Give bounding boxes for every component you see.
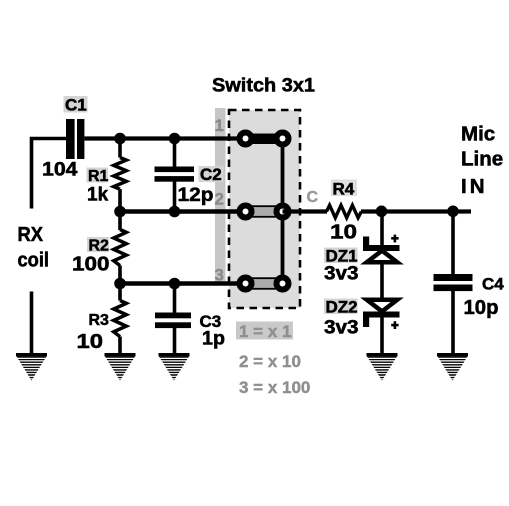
svg-text:3v3: 3v3 [324, 264, 359, 285]
svg-text:C4: C4 [482, 275, 504, 294]
switch S1 body (dashed box) [229, 110, 300, 308]
DZ2 value 3v3 [324, 318, 359, 339]
ground (C4) [437, 353, 469, 381]
DZ2 plus sign [391, 321, 398, 329]
junction dot output / C4 [447, 206, 459, 218]
svg-text:1p: 1p [202, 329, 225, 350]
wire capacitor column x=173.5 lower [173, 284, 177, 355]
switch contact 1 left [237, 130, 255, 148]
svg-text:R2: R2 [89, 238, 110, 255]
R4 value 10 [330, 222, 357, 244]
svg-text:Mic: Mic [461, 123, 495, 146]
R4 label [331, 180, 357, 199]
svg-text:Switch 3x1: Switch 3x1 [212, 75, 315, 97]
ground (zener) [366, 353, 398, 381]
DZ1 label [324, 247, 358, 266]
switch common vertical wire [281, 139, 285, 284]
R3 value 10 [77, 331, 104, 353]
svg-text:2: 2 [215, 190, 224, 209]
svg-text:100: 100 [72, 254, 110, 276]
junction dot row2 / C2 [169, 206, 181, 218]
svg-text:Line: Line [461, 148, 503, 171]
wire output net row2 to R4 [283, 209, 328, 213]
wire row2 net from R1/R2 junction to switch pin 2 [120, 209, 246, 213]
resistor R2 [114, 230, 127, 266]
svg-text:104: 104 [42, 159, 78, 181]
junction dot top wire / C2 [169, 133, 181, 145]
DZ1 plus sign [391, 235, 398, 243]
svg-text:12p: 12p [178, 184, 214, 206]
junction dot row3 / R column [114, 278, 126, 290]
svg-text:10: 10 [77, 331, 104, 353]
switch pin label 2 [215, 190, 224, 209]
svg-text:coil: coil [18, 250, 50, 272]
wire top net from RX coil through C1 to switch pin 1 [32, 139, 246, 209]
switch pin label 3 [215, 266, 224, 285]
C4 value 10p [464, 297, 499, 319]
junction dot output / zener [376, 206, 388, 218]
switch position gray band [215, 108, 226, 284]
switch contact 2 right [274, 203, 292, 221]
legend row 3 = x 100 [239, 378, 310, 397]
svg-text:10p: 10p [464, 297, 499, 319]
resistor R4 [327, 205, 362, 218]
capacitor C1 [66, 119, 84, 159]
C1 label [64, 96, 88, 115]
DZ2 label [324, 298, 358, 317]
RX coil label [18, 224, 50, 272]
capacitor C2 [155, 167, 195, 182]
switch title Switch 3x1 [212, 75, 315, 97]
switch row1 closed contact bar [246, 134, 283, 145]
switch contact 2 left [237, 203, 255, 221]
C3 label [200, 312, 222, 331]
C3 value 1p [202, 329, 225, 350]
Mic Line IN label [461, 123, 503, 199]
C2 label [199, 165, 224, 184]
wire capacitor column x=173.5 upper [173, 139, 177, 212]
svg-text:R1: R1 [88, 168, 109, 185]
node C label [307, 189, 319, 206]
wire output net R4 to end [361, 209, 471, 213]
wire zener column x=382 [380, 212, 384, 355]
zener diode DZ1 [363, 237, 400, 263]
wire row3 net from R2/R3 junction to switch pin 3 [120, 281, 246, 285]
resistor R1 [114, 158, 127, 190]
svg-text:IN: IN [461, 175, 488, 198]
wire RX coil lower lead [30, 292, 34, 355]
ground (RX coil) [16, 353, 48, 381]
switch contact 3 right [274, 275, 292, 293]
svg-text:RX: RX [18, 224, 44, 246]
C4 label [482, 275, 504, 294]
resistor R3 [114, 301, 127, 337]
svg-text:3 = x 100: 3 = x 100 [239, 378, 310, 397]
junction dot row2 / R column [114, 206, 126, 218]
wire C4 column x=452.5 [451, 212, 455, 355]
zener diode DZ2 [363, 300, 400, 327]
R1 value 1k [87, 185, 109, 206]
ground (R3) [104, 353, 136, 381]
switch contact 1 right [274, 130, 292, 148]
switch contact 3 left [237, 275, 255, 293]
C2 value 12p [178, 184, 214, 206]
switch row3 open contact bar [247, 278, 281, 289]
svg-text:10: 10 [330, 222, 357, 244]
svg-text:2 = x 10: 2 = x 10 [239, 352, 301, 371]
R3 label [89, 312, 110, 329]
DZ1 value 3v3 [324, 264, 359, 285]
svg-text:1k: 1k [87, 185, 109, 206]
junction dot top wire / R1 [114, 133, 126, 145]
svg-text:C1: C1 [65, 96, 87, 115]
ground (C3) [158, 353, 190, 381]
svg-text:R4: R4 [333, 180, 355, 199]
R2 label [87, 237, 109, 255]
svg-text:3: 3 [215, 266, 224, 285]
capacitor C3 [155, 313, 191, 329]
svg-text:C: C [307, 189, 319, 206]
switch pin label 1 [215, 116, 224, 135]
legend row 2 = x 10 [239, 352, 301, 371]
wire resistor column vertical x=118 [118, 139, 122, 355]
svg-text:3v3: 3v3 [324, 318, 359, 339]
svg-text:1 = x 1: 1 = x 1 [239, 322, 291, 341]
C1 value 104 [42, 159, 78, 181]
junction dot row3 / C3 [169, 278, 181, 290]
svg-text:R3: R3 [89, 312, 110, 329]
svg-text:1: 1 [215, 116, 224, 135]
R2 value 100 [72, 254, 110, 276]
capacitor C4 [434, 274, 473, 291]
legend row 1 = x 1 [236, 322, 293, 342]
switch row2 open contact bar [247, 206, 281, 217]
svg-text:DZ2: DZ2 [326, 298, 358, 317]
R1 label [87, 168, 109, 186]
svg-text:C2: C2 [200, 165, 222, 184]
